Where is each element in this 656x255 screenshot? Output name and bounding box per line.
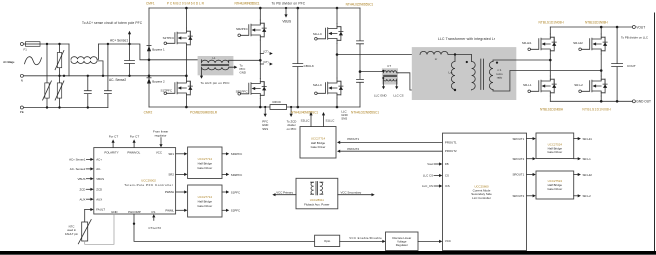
svg-text:Gate Driver: Gate Driver: [197, 166, 212, 170]
series inductor Lr: [420, 51, 472, 61]
bulk cap CBULK: [293, 8, 303, 107]
CT current transformer gray box: [382, 68, 398, 84]
svg-text:PWML: PWML: [165, 209, 174, 213]
svg-text:LLC GND: LLC GND: [374, 93, 387, 97]
U6 to driver C wires: [527, 138, 534, 140]
secondary lead 1 to SR column1: [493, 60, 550, 62]
svg-text:S1LLC: S1LLC: [313, 32, 323, 36]
slow leg column wires: [259, 8, 261, 107]
junction dots PFC: [148, 7, 339, 109]
svg-text:NTBLS1D1N08H: NTBLS1D1N08H: [585, 21, 608, 25]
svg-text:SNS: SNS: [341, 117, 347, 121]
figure right border: [654, 13, 656, 252]
svg-text:Opto: Opto: [324, 239, 331, 243]
svg-text:N: N: [21, 79, 23, 83]
U1 to driver A wires: [176, 153, 185, 155]
svg-text:FAULT: FAULT: [96, 208, 105, 212]
svg-text:F1: F1: [24, 47, 28, 51]
bypass diode D2: [147, 78, 151, 83]
svg-text:(CT): (CT): [263, 60, 268, 64]
CT secondary winding: [384, 79, 397, 87]
junction dots AC section: [46, 43, 131, 109]
common-mode choke winding top: [69, 44, 99, 76]
svg-text:PWMH: PWMH: [165, 190, 174, 194]
PFC choke aux winding: [202, 67, 235, 76]
SR column 1 wires: [549, 27, 551, 101]
PFC choke gray box: [198, 56, 234, 75]
svg-text:NTBLS1D1N08H: NTBLS1D1N08H: [539, 21, 565, 25]
sns arrow right + note: [234, 66, 237, 69]
discrete linear regulator box: [386, 232, 419, 251]
svg-text:SNS: SNS: [262, 127, 268, 131]
output VOUT rail: [550, 26, 632, 28]
svg-text:NTH4L040N065SC1: NTH4L040N065SC1: [235, 2, 260, 6]
svg-text:Gate Driver: Gate Driver: [197, 204, 212, 208]
svg-text:Flyback Aux. Power: Flyback Aux. Power: [304, 203, 329, 207]
VCC Secondary wire: [338, 194, 372, 196]
svg-text:ratio: ratio: [497, 75, 503, 79]
varistor V2 (L-PE): [46, 44, 48, 108]
SR column 2 wires: [600, 27, 602, 101]
PHCOMP wire down to opto: [134, 214, 315, 241]
Y-cap CY1 (N-PE): [84, 76, 91, 108]
flyback aux power box U5: [296, 178, 338, 209]
resonant caps column: [357, 8, 364, 107]
Y-cap CY2 (L-PE): [104, 44, 111, 108]
svg-text:SR-L2: SR-L2: [574, 83, 583, 87]
svg-text:SR1PFC: SR1PFC: [236, 90, 249, 94]
svg-text:CT: CT: [387, 64, 391, 68]
PFC DC bus top rail: [149, 7, 360, 9]
transformer junction dots: [454, 53, 456, 55]
svg-text:UCC29002: UCC29002: [141, 178, 156, 182]
mosfet Q1 S2TPFC (fast leg high): [164, 28, 192, 48]
wire: N line: [23, 75, 186, 77]
svg-text:To PB divider on PFC: To PB divider on PFC: [272, 1, 306, 5]
VBUS stub + label: [285, 8, 287, 15]
mosfet Q2 S1TPFC (fast leg low): [164, 78, 192, 98]
svg-text:SR-Hi1: SR-Hi1: [583, 137, 593, 141]
svg-text:PROUT2: PROUT2: [347, 147, 359, 151]
stub: To ZCD divider on PFC: [290, 107, 292, 114]
svg-text:VBUS: VBUS: [282, 20, 291, 24]
svg-text:Totem-Pole PFC Controller: Totem-Pole PFC Controller: [124, 183, 173, 187]
svg-text:AC+: AC+: [96, 158, 102, 162]
svg-text:SR2PFC: SR2PFC: [236, 27, 249, 31]
U5 transformer icon: [311, 182, 314, 194]
svg-text:POLARITY: POLARITY: [104, 151, 118, 155]
GND OUT terminal: [632, 100, 635, 103]
svg-text:PROUT1: PROUT1: [347, 137, 359, 141]
AC sine symbol: [25, 57, 42, 65]
PFC bottom rail (right part): [287, 106, 360, 108]
wire opto to regulator + label: [340, 240, 383, 242]
svg-text:NTH4L022N065SC1: NTH4L022N065SC1: [346, 3, 374, 7]
CS stub arrow + CT1+CT2: [153, 217, 155, 220]
svg-text:AC-: AC-: [96, 167, 101, 171]
aux arrow down + note: [200, 76, 203, 79]
svg-text:SR1PFC: SR1PFC: [231, 152, 242, 156]
svg-text:Lr: Lr: [435, 57, 438, 61]
fuse F1: [26, 42, 41, 47]
switch node wire to transformer: [337, 54, 420, 56]
svg-text:PHCOMP: PHCOMP: [128, 210, 141, 214]
svg-text:NTH4L040N065SC1: NTH4L040N065SC1: [291, 111, 318, 115]
VCC Primary wire: [275, 194, 296, 196]
svg-text:FB: FB: [445, 162, 449, 166]
svg-text:S2LLC: S2LLC: [313, 83, 323, 87]
svg-text:AC- Sense2: AC- Sense2: [70, 167, 86, 171]
svg-text:VCC Enable/Disable: VCC Enable/Disable: [349, 236, 382, 240]
CT core lines: [384, 75, 397, 76]
svg-text:ZCD: ZCD: [79, 188, 85, 192]
svg-text:AUX: AUX: [96, 197, 102, 201]
common-mode choke winding bottom: [71, 61, 103, 76]
svg-text:AC- Sense2: AC- Sense2: [109, 78, 126, 82]
svg-text:SR-L1: SR-L1: [523, 83, 532, 87]
mosfet Q6 S2LLC (half-bridge low): [315, 78, 343, 98]
mosfet Q10 SR-L2: [579, 76, 607, 96]
CT sense mark 2: [260, 63, 263, 65]
svg-text:ZCD: ZCD: [96, 188, 102, 192]
svg-text:LLC Controller: LLC Controller: [472, 196, 491, 200]
varistor V3 (N-PE): [59, 76, 61, 108]
svg-text:Vout: Vout: [427, 162, 433, 166]
CT primary winding: [382, 71, 398, 73]
varistor V1 (L-N): [59, 44, 61, 76]
svg-text:LLC CS: LLC CS: [393, 93, 403, 97]
U4 gate stub S1LLC: [323, 115, 325, 127]
svg-text:VCC Secondary: VCC Secondary: [341, 190, 362, 194]
PROUT2 wire: [340, 150, 443, 152]
wire resonant caps to CT: [360, 71, 382, 73]
svg-text:SROUT2: SROUT2: [512, 157, 524, 161]
svg-text:SR1: SR1: [168, 152, 174, 156]
svg-text:AC+ Sense1: AC+ Sense1: [69, 158, 86, 162]
output junction dots: [549, 26, 618, 103]
mosfet Q9 SR-Hi2: [579, 34, 607, 54]
PFC bottom rail (left part): [149, 106, 270, 108]
U3 output S1PFC: [222, 191, 226, 193]
svg-text:CT1+CT2: CT1+CT2: [148, 226, 161, 230]
svg-text:Gate Driver: Gate Driver: [547, 150, 562, 154]
svg-text:(CT): (CT): [263, 50, 268, 54]
U8 output SR-L2: [574, 195, 578, 197]
opto coupler box: [315, 235, 340, 246]
svg-text:To AUX pin on PFC: To AUX pin on PFC: [201, 81, 231, 85]
driver box U2 (PFC SR half bridge gate driver): [188, 147, 222, 179]
bottom black bar: [0, 251, 656, 255]
svg-text:LLC_CS: LLC_CS: [422, 184, 433, 188]
svg-text:S1LLC: S1LLC: [326, 118, 335, 122]
primary phase dot: [466, 61, 468, 63]
svg-text:Half Bridge: Half Bridge: [198, 161, 213, 165]
svg-text:PROUT1: PROUT1: [445, 140, 457, 144]
CT secondary leads + arrows: [382, 86, 398, 89]
U6 to driver D wires: [527, 174, 534, 176]
stub from linear regulator into VCC: [160, 138, 162, 145]
X-cap CX1 (L-N): [125, 44, 135, 76]
stub For CT 2: [133, 142, 135, 148]
svg-text:Lm: Lm: [449, 71, 454, 75]
LLC transformer gray box: [412, 47, 517, 100]
mosfet Q4 SR1PFC (slow leg low): [238, 79, 266, 99]
U1 input FAULT wire from NTC: [85, 209, 91, 211]
NTC ground return wire: [85, 214, 114, 244]
svg-text:For CT: For CT: [109, 134, 119, 138]
LLC controller box U6: [443, 133, 527, 250]
U7 output SR-L1: [574, 158, 578, 160]
magnetizing inductor Lm: [451, 55, 455, 91]
svg-text:Regulator: Regulator: [396, 243, 408, 247]
svg-text:CBULK: CBULK: [304, 64, 315, 68]
svg-text:UCC28911: UCC28911: [310, 198, 324, 202]
U7 output SR-Hi1: [574, 138, 578, 140]
svg-text:LLC CS: LLC CS: [423, 174, 433, 178]
svg-text:SR-L2: SR-L2: [583, 194, 592, 198]
AC+ sense stub arrow up: [129, 34, 131, 45]
driver box U8 (SR gate driver 2): [536, 171, 574, 199]
svg-text:S1TPFC: S1TPFC: [160, 88, 172, 92]
svg-text:LLC Transformer with integrate: LLC Transformer with integrated Lr: [438, 37, 496, 41]
svg-text:VCC: VCC: [156, 151, 162, 155]
secondary lead 2 to SR column2: [493, 71, 601, 92]
CT output to primary return: [398, 73, 471, 90]
svg-text:Half Bridge: Half Bridge: [198, 200, 213, 204]
terminal L (line input): [20, 43, 23, 46]
LLC leg column wires: [336, 8, 338, 107]
U4 gate stub S2LLC: [310, 115, 312, 127]
svg-text:SROUT2: SROUT2: [512, 194, 524, 198]
svg-text:GND: GND: [111, 210, 117, 214]
svg-text:SR-Hi2: SR-Hi2: [573, 41, 583, 45]
transformer core: [481, 59, 484, 90]
primary winding: [472, 62, 476, 91]
svg-text:S2LLC: S2LLC: [301, 118, 310, 122]
svg-text:CS: CS: [445, 174, 449, 178]
svg-text:UCC27714: UCC27714: [198, 157, 213, 161]
driver box U7 (SR gate driver 1): [536, 133, 574, 159]
svg-text:VCC: VCC: [445, 239, 451, 243]
PFC controller box U1: [94, 148, 176, 214]
svg-text:regulator: regulator: [155, 133, 167, 137]
mosfet Q7 SR-Hi1: [528, 34, 556, 54]
terminal PE (earth): [20, 106, 23, 109]
bypass diode D1: [147, 46, 151, 51]
svg-text:VBUS: VBUS: [78, 177, 86, 181]
svg-text:Half Bridge: Half Bridge: [311, 141, 326, 145]
U1 to driver B wires: [176, 191, 185, 193]
svg-text:PCMB20SM60DLR: PCMB20SM60DLR: [167, 2, 205, 6]
svg-text:NTBLS1D1N08H: NTBLS1D1N08H: [582, 108, 611, 112]
svg-text:To PB divider on LLC: To PB divider on LLC: [621, 35, 648, 39]
svg-text:UCC27714: UCC27714: [311, 136, 326, 140]
svg-text:SR-Hi2: SR-Hi2: [583, 173, 593, 177]
svg-text:S2PFC: S2PFC: [231, 209, 240, 213]
svg-text:S1PFC: S1PFC: [231, 190, 240, 194]
llc switch node dot + resonant cap tap dot: [336, 53, 339, 56]
stub: PFC GND SNS: [264, 107, 266, 114]
LLC gate driver box U4: [300, 127, 336, 159]
svg-text:VOUT: VOUT: [636, 25, 645, 29]
NTC thermistor: [82, 222, 88, 241]
terminal N (neutral input): [20, 74, 23, 77]
wire: L line: [23, 44, 201, 60]
svg-text:Gate Driver: Gate Driver: [311, 145, 326, 149]
secondary phase dot: [496, 62, 498, 64]
svg-text:To AC+ sense circuit of totem: To AC+ sense circuit of totem pole PFC: [82, 21, 143, 25]
PFC choke core lines: [202, 65, 229, 66]
svg-text:FAULT pin: FAULT pin: [65, 232, 78, 236]
wire: PE line: [23, 107, 108, 109]
svg-text:SR-L1: SR-L1: [583, 157, 592, 161]
svg-text:CMF1: CMF1: [146, 2, 155, 6]
svg-text:SR2: SR2: [168, 173, 174, 177]
U2 output SR2PFC: [222, 173, 226, 175]
svg-text:NTBLS1D1N08H: NTBLS1D1N08H: [540, 108, 564, 112]
svg-text:PWMVOL: PWMVOL: [127, 151, 140, 155]
svg-text:PE: PE: [20, 110, 24, 114]
svg-text:Gate Driver: Gate Driver: [547, 187, 562, 191]
svg-text:GND OUT: GND OUT: [636, 100, 651, 104]
svg-text:S2TPFC: S2TPFC: [163, 36, 175, 40]
svg-text:CMF2: CMF2: [144, 111, 153, 115]
svg-text:COUT: COUT: [627, 64, 636, 68]
secondary winding: [489, 62, 493, 90]
bypass diode bus vertical: [148, 8, 150, 107]
svg-text:SROUT1: SROUT1: [512, 173, 524, 177]
U8 output SR-Hi2: [574, 174, 578, 176]
fast leg column wires: [185, 8, 187, 107]
mosfet Q5 S1LLC (half-bridge high): [315, 24, 343, 44]
svg-text:UCC27714: UCC27714: [198, 195, 213, 199]
VOUT terminal: [632, 26, 635, 29]
driver box U3 (PFC fast leg gate driver): [188, 185, 222, 217]
svg-text:RZCD: RZCD: [273, 100, 282, 104]
CT phase dots: [382, 70, 384, 72]
stub For CT 1: [112, 142, 114, 148]
svg-text:SROUT1: SROUT1: [512, 137, 524, 141]
CT sense mark 1: [260, 53, 263, 55]
svg-text:For CT: For CT: [130, 134, 140, 138]
svg-text:Bypass 2: Bypass 2: [152, 80, 165, 84]
mosfet Q3 SR2PFC (slow leg high): [238, 20, 266, 40]
svg-text:VCC Primary: VCC Primary: [276, 190, 293, 194]
U2 output SR1PFC: [222, 153, 226, 155]
mosfet Q8 SR-L1: [528, 76, 556, 96]
svg-text:GND: GND: [240, 71, 246, 75]
PFC choke main winding: [202, 60, 261, 63]
output GND rail: [550, 100, 632, 102]
svg-text:ICS: ICS: [445, 184, 450, 188]
svg-text:AUX: AUX: [79, 197, 85, 201]
svg-text:SR2PFC: SR2PFC: [231, 173, 242, 177]
svg-text:AC+ Sense1: AC+ Sense1: [110, 39, 128, 43]
svg-text:PCMB20SM60DLR: PCMB20SM60DLR: [190, 111, 218, 115]
svg-text:SR-Hi1: SR-Hi1: [522, 41, 532, 45]
svg-text:NTH4L022N065SC1: NTH4L022N065SC1: [351, 111, 379, 115]
PROUT1 wire: [340, 141, 443, 143]
svg-text:PROUT2: PROUT2: [445, 149, 457, 153]
svg-text:AC Voltage: AC Voltage: [3, 60, 15, 64]
wire regulator to U6 VCC: [418, 240, 440, 242]
svg-text:Bypass 1: Bypass 1: [152, 48, 165, 52]
output cap COUT: [612, 27, 623, 101]
U3 output S2PFC: [222, 209, 226, 211]
svg-text:on PFC: on PFC: [287, 127, 297, 131]
RZCD resistor: [270, 105, 287, 110]
svg-text:CS: CS: [151, 210, 155, 214]
svg-text:VBUS: VBUS: [96, 177, 104, 181]
